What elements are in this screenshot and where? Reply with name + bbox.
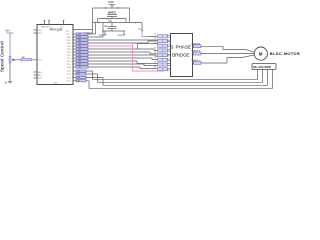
svg-text:PB2: PB2: [67, 43, 71, 45]
svg-text:+5V: +5V: [5, 28, 10, 32]
svg-text:10k: 10k: [77, 74, 80, 76]
svg-text:PHASE C: PHASE C: [192, 59, 201, 62]
svg-text:PD5: PD5: [67, 64, 71, 66]
svg-text:4.5V: 4.5V: [108, 0, 114, 4]
svg-text:10k: 10k: [78, 55, 81, 57]
svg-text:PC0: PC0: [38, 60, 42, 62]
svg-text:10k: 10k: [78, 46, 81, 48]
svg-text:PD1: PD1: [67, 58, 71, 60]
svg-text:PB0: PB0: [67, 37, 71, 39]
svg-text:10k: 10k: [77, 77, 80, 79]
svg-text:ML-2S2 BMR: ML-2S2 BMR: [253, 65, 271, 69]
svg-text:VCC: VCC: [60, 27, 65, 29]
svg-text:M: M: [259, 51, 263, 56]
svg-text:22p: 22p: [108, 20, 113, 23]
svg-text:PD0: PD0: [67, 55, 71, 57]
svg-text:10k: 10k: [78, 52, 81, 54]
svg-text:3 PHASE: 3 PHASE: [171, 44, 191, 49]
svg-text:10k: 10k: [78, 64, 81, 66]
svg-text:10k: 10k: [77, 80, 80, 82]
svg-text:PB4: PB4: [67, 49, 71, 51]
svg-text:PD2: PD2: [38, 30, 42, 32]
svg-text:PC4: PC4: [67, 81, 71, 83]
svg-text:GND: GND: [118, 35, 123, 37]
svg-text:AD6: AD6: [38, 71, 42, 74]
svg-text:10k: 10k: [78, 67, 81, 69]
svg-text:PB3: PB3: [67, 46, 71, 48]
svg-text:AD7: AD7: [38, 74, 42, 77]
svg-text:10k: 10k: [78, 37, 81, 39]
svg-text:12V: 12V: [138, 29, 142, 31]
svg-text:GND: GND: [99, 35, 104, 37]
svg-text:PC1: PC1: [67, 71, 71, 73]
svg-text:PB1: PB1: [67, 40, 71, 42]
svg-text:10k: 10k: [78, 40, 81, 42]
svg-text:PD6: PD6: [67, 67, 71, 69]
svg-text:XT1: XT1: [66, 31, 69, 33]
svg-text:10k: 10k: [77, 71, 80, 73]
svg-text:PC3: PC3: [67, 78, 71, 80]
svg-text:10k: 10k: [78, 49, 81, 51]
svg-text:AREF AVCC: AREF AVCC: [41, 26, 52, 29]
svg-text:10k: 10k: [78, 61, 81, 63]
svg-text:10k: 10k: [78, 43, 81, 45]
svg-text:PHASE B: PHASE B: [192, 50, 201, 53]
svg-text:PHASE A: PHASE A: [192, 42, 201, 45]
svg-text:PC2: PC2: [67, 74, 71, 76]
svg-text:XT2: XT2: [66, 34, 69, 36]
svg-text:10k: 10k: [78, 58, 81, 60]
svg-text:GND: GND: [53, 83, 58, 85]
svg-text:PD3: PD3: [38, 33, 42, 35]
svg-text:PB5: PB5: [67, 52, 71, 54]
svg-text:BRIDGE: BRIDGE: [172, 52, 189, 57]
svg-text:8MEG: 8MEG: [108, 11, 116, 15]
svg-text:10k: 10k: [78, 34, 81, 36]
svg-text:BLDC MOTOR: BLDC MOTOR: [270, 51, 300, 56]
svg-text:Speed Control: Speed Control: [0, 41, 4, 72]
svg-text:PD4: PD4: [67, 61, 71, 63]
